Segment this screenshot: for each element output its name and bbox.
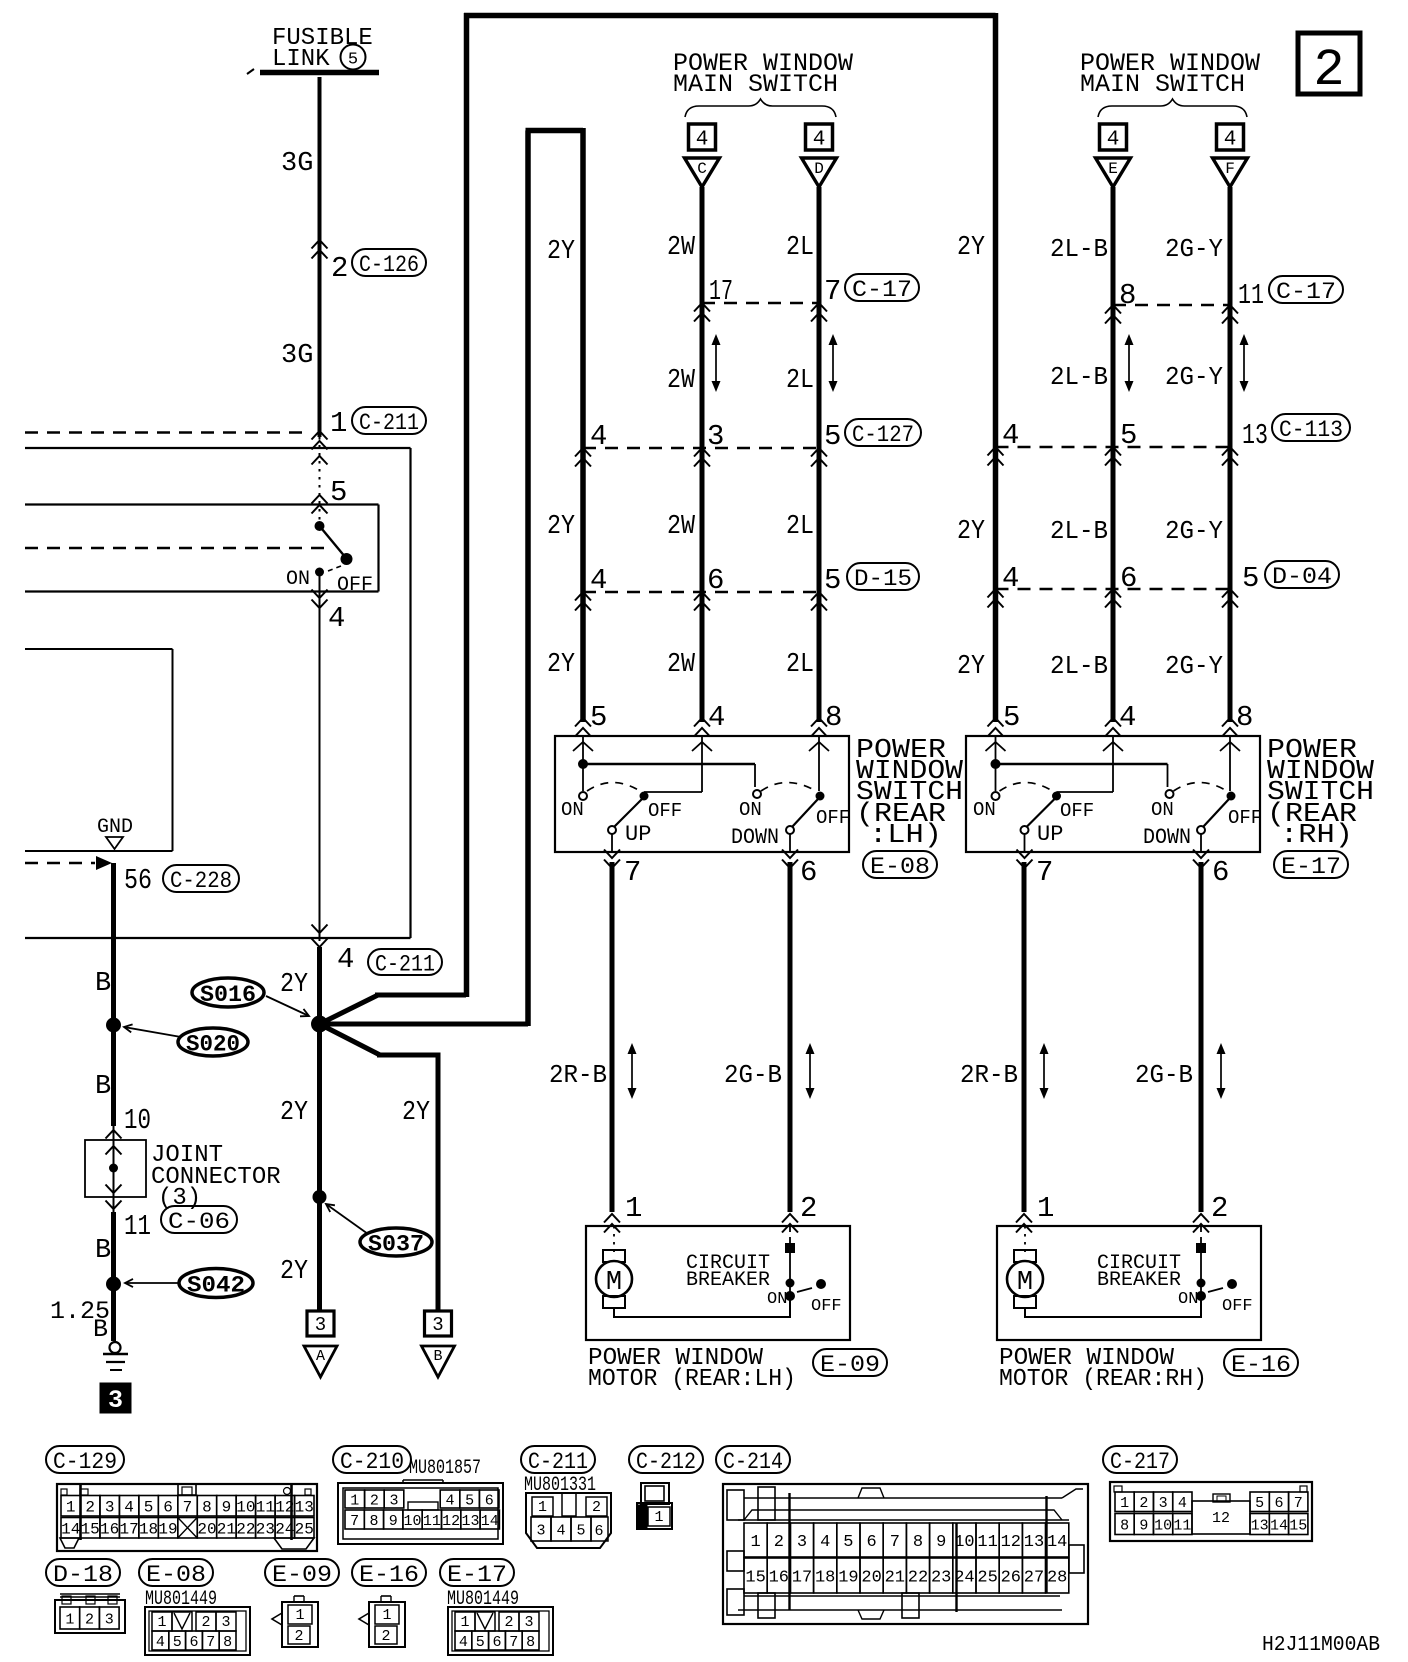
svg-text:15: 15 xyxy=(1289,1517,1307,1534)
svg-text:MOTOR (REAR:RH): MOTOR (REAR:RH) xyxy=(999,1366,1207,1393)
svg-text:C-228: C-228 xyxy=(170,868,232,894)
wire label 2W (1) xyxy=(667,233,696,263)
RH switch label UP xyxy=(1037,822,1063,847)
svg-text:19: 19 xyxy=(158,1521,177,1539)
wire label 2Y (top right riser) xyxy=(957,233,985,263)
svg-text:MAIN SWITCH: MAIN SWITCH xyxy=(673,70,838,99)
svg-text:C-06: C-06 xyxy=(168,1209,230,1235)
svg-text:9: 9 xyxy=(936,1533,946,1552)
ignition switch contact (movable arm) xyxy=(315,521,353,577)
svg-text:25: 25 xyxy=(295,1521,314,1539)
pin 11 label and connector C-06 xyxy=(124,1206,237,1243)
svg-text:5: 5 xyxy=(824,564,841,597)
updown arrow 2W xyxy=(712,334,721,392)
wire label 2Y (right 1) xyxy=(957,517,985,547)
svg-text:16: 16 xyxy=(100,1521,119,1539)
svg-text:S037: S037 xyxy=(368,1231,424,1257)
svg-text:2W: 2W xyxy=(667,650,696,680)
svg-text:2Y: 2Y xyxy=(280,1257,308,1287)
wire from switch pin 4 xyxy=(312,572,328,941)
end triangle A xyxy=(304,1311,337,1377)
main switch terminal C (4) xyxy=(685,124,720,187)
svg-text:6: 6 xyxy=(1274,1495,1283,1512)
svg-text:4: 4 xyxy=(1119,701,1136,734)
svg-text:C-212: C-212 xyxy=(636,1449,696,1475)
svg-text:17: 17 xyxy=(792,1569,812,1588)
svg-text:UP: UP xyxy=(625,822,651,847)
svg-text:B: B xyxy=(433,1348,442,1365)
svg-text:2: 2 xyxy=(201,1614,210,1631)
connector E-08 label xyxy=(139,1559,217,1611)
RH switch internals xyxy=(986,736,1241,868)
wire label 2W (4) xyxy=(667,650,696,680)
svg-text:C: C xyxy=(697,160,707,178)
ETACS unit box right edge xyxy=(172,649,174,851)
power window switch rear RH box xyxy=(966,736,1260,852)
svg-text:16: 16 xyxy=(769,1569,789,1588)
updown arrow 2G-B (LH) xyxy=(806,1043,815,1099)
wire label B (3) xyxy=(95,1236,111,1266)
connector C-129 label xyxy=(46,1446,124,1475)
svg-text:17: 17 xyxy=(120,1521,139,1539)
pin 4 label (C-113) xyxy=(1002,419,1019,452)
pin 3 label (C-127) xyxy=(707,420,724,453)
pin 5 label (C-113) xyxy=(1120,419,1137,452)
svg-text:E-09: E-09 xyxy=(272,1562,332,1588)
wire label 2L-B (3) xyxy=(1050,516,1108,546)
connector E-16 view xyxy=(359,1596,405,1647)
switch box (top edge) xyxy=(25,503,379,505)
svg-text:5: 5 xyxy=(465,1492,474,1509)
svg-text:8: 8 xyxy=(1120,1517,1129,1534)
wire 2L from terminal D xyxy=(817,187,822,722)
svg-text:15: 15 xyxy=(81,1521,100,1539)
wire 2Y label (at splice) xyxy=(280,970,308,1000)
pin 4 label (C-127) xyxy=(590,420,607,453)
svg-text:C-211: C-211 xyxy=(375,951,435,977)
main feed border (left riser) xyxy=(464,13,470,997)
connector C-212 label xyxy=(629,1446,703,1475)
svg-text:2L-B: 2L-B xyxy=(1050,651,1108,681)
wire label 2W (2) xyxy=(667,366,696,396)
svg-text::LH): :LH) xyxy=(869,821,942,851)
connector D-15 label xyxy=(847,563,919,592)
svg-text:8: 8 xyxy=(202,1499,212,1517)
svg-text:3: 3 xyxy=(389,1492,398,1509)
connector C-211 pin 4 crossing xyxy=(312,925,443,978)
splice S042 junction dot xyxy=(106,1277,121,1292)
svg-text:4: 4 xyxy=(1002,562,1019,595)
svg-text:OFF: OFF xyxy=(1228,807,1262,829)
svg-text:C-211: C-211 xyxy=(528,1449,588,1475)
connector C-217 label xyxy=(1103,1446,1177,1475)
svg-text:2: 2 xyxy=(774,1533,784,1552)
svg-text:5: 5 xyxy=(1120,419,1137,452)
LH motor internals xyxy=(596,1226,826,1317)
svg-text:1: 1 xyxy=(538,1499,547,1516)
splice S016 junction xyxy=(311,1016,328,1033)
svg-text:1: 1 xyxy=(65,1611,74,1628)
connector C-129 view xyxy=(57,1484,317,1551)
svg-text:3: 3 xyxy=(797,1533,807,1552)
wire label 2G-Y (2) xyxy=(1165,362,1223,392)
updown arrow 2G-Y xyxy=(1240,334,1249,392)
svg-text:2: 2 xyxy=(85,1499,95,1517)
pin 11 label (C-17) xyxy=(1238,279,1264,312)
svg-text:6: 6 xyxy=(1120,562,1137,595)
main switch terminal F (4) xyxy=(1213,124,1248,187)
connector E-09 label xyxy=(813,1349,887,1378)
ETACS unit box bottom edge xyxy=(25,850,173,852)
svg-text:2Y: 2Y xyxy=(280,970,308,1000)
power window switch rear LH box xyxy=(555,736,849,852)
svg-text:E-08: E-08 xyxy=(870,854,930,880)
wire label 2R-B (RH) xyxy=(960,1060,1018,1090)
wire label 2G-Y (1) xyxy=(1165,234,1223,264)
wire 2Y splice to triangle B xyxy=(320,1024,439,1311)
page reference 2 box xyxy=(1298,33,1360,100)
connector C-126 crossing pin 2 xyxy=(312,240,427,285)
svg-text:3: 3 xyxy=(432,1314,443,1336)
svg-text:OFF: OFF xyxy=(1060,800,1094,822)
svg-text:2G-B: 2G-B xyxy=(724,1060,782,1090)
svg-text:6: 6 xyxy=(163,1499,173,1517)
svg-text:2: 2 xyxy=(85,1611,94,1628)
wire label 2Y (low pi) xyxy=(547,650,575,680)
svg-text:11: 11 xyxy=(977,1533,997,1552)
wire 2G-B (LH) xyxy=(788,862,793,1212)
connector D-04 row xyxy=(988,589,1239,608)
svg-text:17: 17 xyxy=(709,275,733,308)
fusible link bus bar xyxy=(247,69,379,74)
wire label 2G-Y (4) xyxy=(1165,651,1223,681)
svg-text:8: 8 xyxy=(223,1634,232,1651)
pin 5 label (RH switch) xyxy=(988,701,1021,737)
svg-text:3: 3 xyxy=(315,1314,326,1336)
pin 10 label xyxy=(124,1104,151,1137)
svg-text:2: 2 xyxy=(381,1628,390,1645)
svg-text:3G: 3G xyxy=(281,149,313,179)
connector E-08 label xyxy=(863,851,937,880)
svg-text:4: 4 xyxy=(556,1522,565,1539)
pi-loop right leg 2Y xyxy=(580,128,586,722)
svg-text:22: 22 xyxy=(908,1569,928,1588)
wire label 2L (2) xyxy=(786,366,814,396)
svg-text:OFF: OFF xyxy=(337,574,373,597)
svg-text:8: 8 xyxy=(1119,279,1136,312)
svg-text:C-217: C-217 xyxy=(1110,1449,1170,1475)
svg-text:6: 6 xyxy=(866,1533,876,1552)
wire (dotted) from pin1 down to switch xyxy=(312,437,328,526)
svg-text:1: 1 xyxy=(350,1492,359,1509)
svg-text:2G-Y: 2G-Y xyxy=(1165,362,1223,392)
svg-text:1: 1 xyxy=(66,1499,76,1517)
svg-text:OFF: OFF xyxy=(1222,1297,1253,1316)
connector E-17 label xyxy=(440,1559,519,1611)
svg-text:10: 10 xyxy=(1154,1517,1172,1534)
svg-text:4: 4 xyxy=(328,602,345,635)
svg-text:M: M xyxy=(1017,1268,1033,1298)
power window motor rear RH box xyxy=(997,1226,1261,1340)
power window motor rear RH text xyxy=(999,1345,1207,1393)
svg-text:20: 20 xyxy=(197,1521,216,1539)
svg-text:1: 1 xyxy=(1037,1192,1054,1225)
svg-text:B: B xyxy=(95,1236,111,1266)
svg-text:5: 5 xyxy=(1255,1495,1264,1512)
svg-text:2: 2 xyxy=(504,1614,513,1631)
svg-text:OFF: OFF xyxy=(816,807,850,829)
switch label OFF xyxy=(337,574,373,597)
svg-text:OFF: OFF xyxy=(648,800,682,822)
RH switch label OFF (left) xyxy=(1060,800,1094,822)
svg-text:4: 4 xyxy=(696,129,709,152)
svg-text:1: 1 xyxy=(157,1614,166,1631)
pin 4 label (LH switch) xyxy=(694,701,725,737)
switch box (bottom edge) xyxy=(25,590,379,592)
power window main switch label (left) xyxy=(673,49,853,99)
svg-text:3: 3 xyxy=(536,1522,545,1539)
connector C-210 view xyxy=(338,1480,503,1544)
wire label 2Y (top pi) xyxy=(547,237,575,267)
svg-text:7: 7 xyxy=(1294,1495,1303,1512)
connector E-09 label xyxy=(265,1559,339,1588)
svg-text:C-214: C-214 xyxy=(723,1449,783,1475)
wire 3G from fusible link xyxy=(318,77,322,437)
svg-text:5: 5 xyxy=(824,420,841,453)
dashed wire into pin 1 C-211 xyxy=(25,431,328,450)
wire label 2G-B (RH) xyxy=(1135,1060,1193,1090)
svg-text:7: 7 xyxy=(890,1533,900,1552)
svg-text:ON: ON xyxy=(767,1290,787,1309)
svg-text:5: 5 xyxy=(330,476,347,509)
svg-text:20: 20 xyxy=(861,1569,881,1588)
svg-text:1: 1 xyxy=(654,1509,663,1526)
svg-text:6: 6 xyxy=(800,856,817,889)
wire 2Y label (bottom) xyxy=(280,1257,308,1287)
wire label 2R-B (LH) xyxy=(549,1060,607,1090)
main switch terminal E (4) xyxy=(1096,124,1131,187)
connector C-211 label xyxy=(521,1446,596,1497)
pin 4 label (D-04) xyxy=(1002,562,1019,595)
connector C-217 view xyxy=(1110,1482,1312,1541)
splice S020 label xyxy=(124,1024,248,1057)
svg-text:7: 7 xyxy=(206,1634,215,1651)
updown arrow 2G-B (RH) xyxy=(1217,1043,1226,1099)
svg-text:D-18: D-18 xyxy=(53,1562,113,1588)
wire label B (2) xyxy=(95,1072,111,1102)
svg-text:7: 7 xyxy=(509,1634,518,1651)
svg-text:M: M xyxy=(606,1268,622,1298)
svg-text:2Y: 2Y xyxy=(547,237,575,267)
connector E-17 view xyxy=(448,1607,553,1655)
svg-text:13: 13 xyxy=(1251,1517,1269,1534)
svg-text:5: 5 xyxy=(144,1499,154,1517)
svg-text:BREAKER: BREAKER xyxy=(1097,1269,1181,1292)
connector D-18 label xyxy=(46,1559,120,1588)
svg-text:H2J11M00AB: H2J11M00AB xyxy=(1262,1634,1380,1657)
connector D-04 label xyxy=(1265,561,1339,590)
svg-text:LINK: LINK xyxy=(272,46,330,73)
pin 8 label (LH switch) xyxy=(811,701,842,737)
svg-text:13: 13 xyxy=(1024,1533,1044,1552)
pin 17 label xyxy=(709,275,733,308)
LH switch label ON (left) xyxy=(561,799,584,821)
wire 2Y splice to border riser xyxy=(320,995,467,1024)
svg-text:E-09: E-09 xyxy=(820,1352,880,1378)
wire label 2L (4) xyxy=(786,650,814,680)
wire label 2G-B (LH) xyxy=(724,1060,782,1090)
svg-text:2: 2 xyxy=(1313,41,1344,100)
svg-text:F: F xyxy=(1225,160,1235,178)
svg-text:D: D xyxy=(814,160,824,178)
pin 4 label (RH switch) xyxy=(1105,701,1136,737)
svg-text:1: 1 xyxy=(460,1614,469,1631)
pin 7 label (LH) xyxy=(624,856,641,889)
pin 6 label (D-04) xyxy=(1120,562,1137,595)
switch label ON xyxy=(286,568,310,591)
connector C-211 view xyxy=(526,1493,611,1548)
svg-text:6: 6 xyxy=(1212,856,1229,889)
svg-text:2Y: 2Y xyxy=(957,652,985,682)
svg-text:1: 1 xyxy=(330,407,347,440)
pin 2 label (RH motor) xyxy=(1193,1192,1228,1233)
svg-text:E-16: E-16 xyxy=(1231,1352,1291,1378)
svg-text:14: 14 xyxy=(61,1521,80,1539)
connector C-210 label xyxy=(333,1446,481,1480)
pin 56 label and connector C-228 xyxy=(124,864,239,897)
pin 5 label (D-04) xyxy=(1242,562,1259,595)
updown arrow 2R-B (RH) xyxy=(1040,1043,1049,1099)
svg-text:4: 4 xyxy=(124,1499,134,1517)
svg-text:2Y: 2Y xyxy=(547,512,575,542)
svg-text:2Y: 2Y xyxy=(402,1098,430,1128)
wire 2Y label (left lower) xyxy=(280,1098,308,1128)
power window motor rear LH box xyxy=(586,1226,850,1340)
svg-text:2R-B: 2R-B xyxy=(960,1060,1018,1090)
svg-text:3: 3 xyxy=(105,1499,115,1517)
pin 1 label (LH motor) xyxy=(604,1192,642,1233)
svg-text:A: A xyxy=(316,1348,325,1365)
circuit breaker text (RH) xyxy=(1097,1252,1181,1292)
svg-text:3: 3 xyxy=(1159,1495,1168,1512)
relay box outline (bottom edge) xyxy=(25,937,411,939)
svg-text:2L: 2L xyxy=(786,650,814,680)
wire 2R-B (RH) xyxy=(1022,862,1027,1212)
end triangle B xyxy=(422,1311,455,1377)
svg-text:2Y: 2Y xyxy=(280,1098,308,1128)
svg-text:4: 4 xyxy=(1107,129,1120,152)
svg-text:UP: UP xyxy=(1037,822,1063,847)
svg-text:18: 18 xyxy=(815,1569,835,1588)
svg-text:6: 6 xyxy=(485,1492,494,1509)
svg-text:7: 7 xyxy=(624,856,641,889)
pin 6 label (RH) xyxy=(1212,856,1229,889)
svg-text:2Y: 2Y xyxy=(547,650,575,680)
connector E-16 label xyxy=(1224,1349,1298,1378)
svg-text:5: 5 xyxy=(843,1533,853,1552)
svg-text:2G-Y: 2G-Y xyxy=(1165,516,1223,546)
splice S016 label xyxy=(192,978,309,1016)
svg-text:8: 8 xyxy=(913,1533,923,1552)
svg-text:13: 13 xyxy=(295,1499,314,1517)
connector C-127 label xyxy=(845,419,921,448)
svg-text:BREAKER: BREAKER xyxy=(686,1269,770,1292)
svg-text:1: 1 xyxy=(1120,1495,1129,1512)
switch box (right edge) xyxy=(377,505,379,592)
svg-text:26: 26 xyxy=(1001,1569,1021,1588)
svg-text:23: 23 xyxy=(256,1521,275,1539)
wire label 3G (upper) xyxy=(281,149,313,179)
svg-text:2L: 2L xyxy=(786,366,814,396)
svg-text:MU801857: MU801857 xyxy=(409,1457,481,1480)
wire label 2L-B (1) xyxy=(1050,234,1108,264)
main switch terminal D (4) xyxy=(802,124,837,187)
svg-text:21: 21 xyxy=(885,1569,905,1588)
LH switch label OFF (right) xyxy=(816,807,850,829)
svg-text:2L: 2L xyxy=(786,233,814,263)
svg-text:E-17: E-17 xyxy=(447,1562,507,1588)
svg-text::RH): :RH) xyxy=(1280,821,1353,851)
wire label 2L-B (4) xyxy=(1050,651,1108,681)
svg-text:23: 23 xyxy=(931,1569,951,1588)
svg-text:12: 12 xyxy=(1001,1533,1021,1552)
dashed wire to pin 56 xyxy=(25,856,112,870)
pin 1 label and connector C-211 xyxy=(330,407,426,440)
RH motor internals xyxy=(1007,1226,1237,1317)
svg-text:S016: S016 xyxy=(200,982,256,1008)
connector E-08 view xyxy=(145,1607,250,1655)
svg-text:2: 2 xyxy=(370,1492,379,1509)
svg-text:ON: ON xyxy=(561,799,584,821)
power window main switch label (right) xyxy=(1080,49,1260,99)
svg-text:4: 4 xyxy=(445,1492,454,1509)
svg-text:5: 5 xyxy=(576,1522,585,1539)
svg-text:5: 5 xyxy=(476,1634,485,1651)
svg-text:12: 12 xyxy=(442,1513,460,1530)
svg-text:E-17: E-17 xyxy=(1281,854,1341,880)
LH switch label DOWN xyxy=(731,825,779,850)
svg-text:ON: ON xyxy=(286,568,310,591)
svg-text:1: 1 xyxy=(295,1607,304,1624)
wire label 3G (lower) xyxy=(281,341,313,371)
svg-text:4: 4 xyxy=(337,943,354,976)
wire 2Y label (right of A) xyxy=(402,1098,430,1128)
svg-text:6: 6 xyxy=(189,1634,198,1651)
svg-text:S042: S042 xyxy=(187,1272,245,1298)
svg-text:2R-B: 2R-B xyxy=(549,1060,607,1090)
svg-text:12: 12 xyxy=(1212,1510,1230,1527)
pin 8 label (RH switch) xyxy=(1222,701,1253,737)
svg-text:2Y: 2Y xyxy=(957,233,985,263)
svg-text:9: 9 xyxy=(222,1499,232,1517)
svg-text:C-127: C-127 xyxy=(852,422,914,448)
splice S037 dot xyxy=(313,1190,327,1204)
wire 2L-B from terminal E xyxy=(1111,187,1116,722)
pin 5 label xyxy=(312,476,348,514)
svg-text:2W: 2W xyxy=(667,233,696,263)
svg-text:11: 11 xyxy=(1173,1517,1191,1534)
connector D-15 row xyxy=(575,592,827,611)
svg-text:DOWN: DOWN xyxy=(731,825,779,850)
joint connector (3) box xyxy=(85,1126,146,1212)
svg-text:10: 10 xyxy=(404,1513,422,1530)
svg-text:7: 7 xyxy=(350,1513,359,1530)
svg-text:8: 8 xyxy=(369,1513,378,1530)
pin 7 label xyxy=(824,275,841,308)
pi-loop top run xyxy=(526,128,584,134)
ground wire B (upper) xyxy=(111,863,116,1126)
wire 2W from terminal C xyxy=(700,187,705,722)
